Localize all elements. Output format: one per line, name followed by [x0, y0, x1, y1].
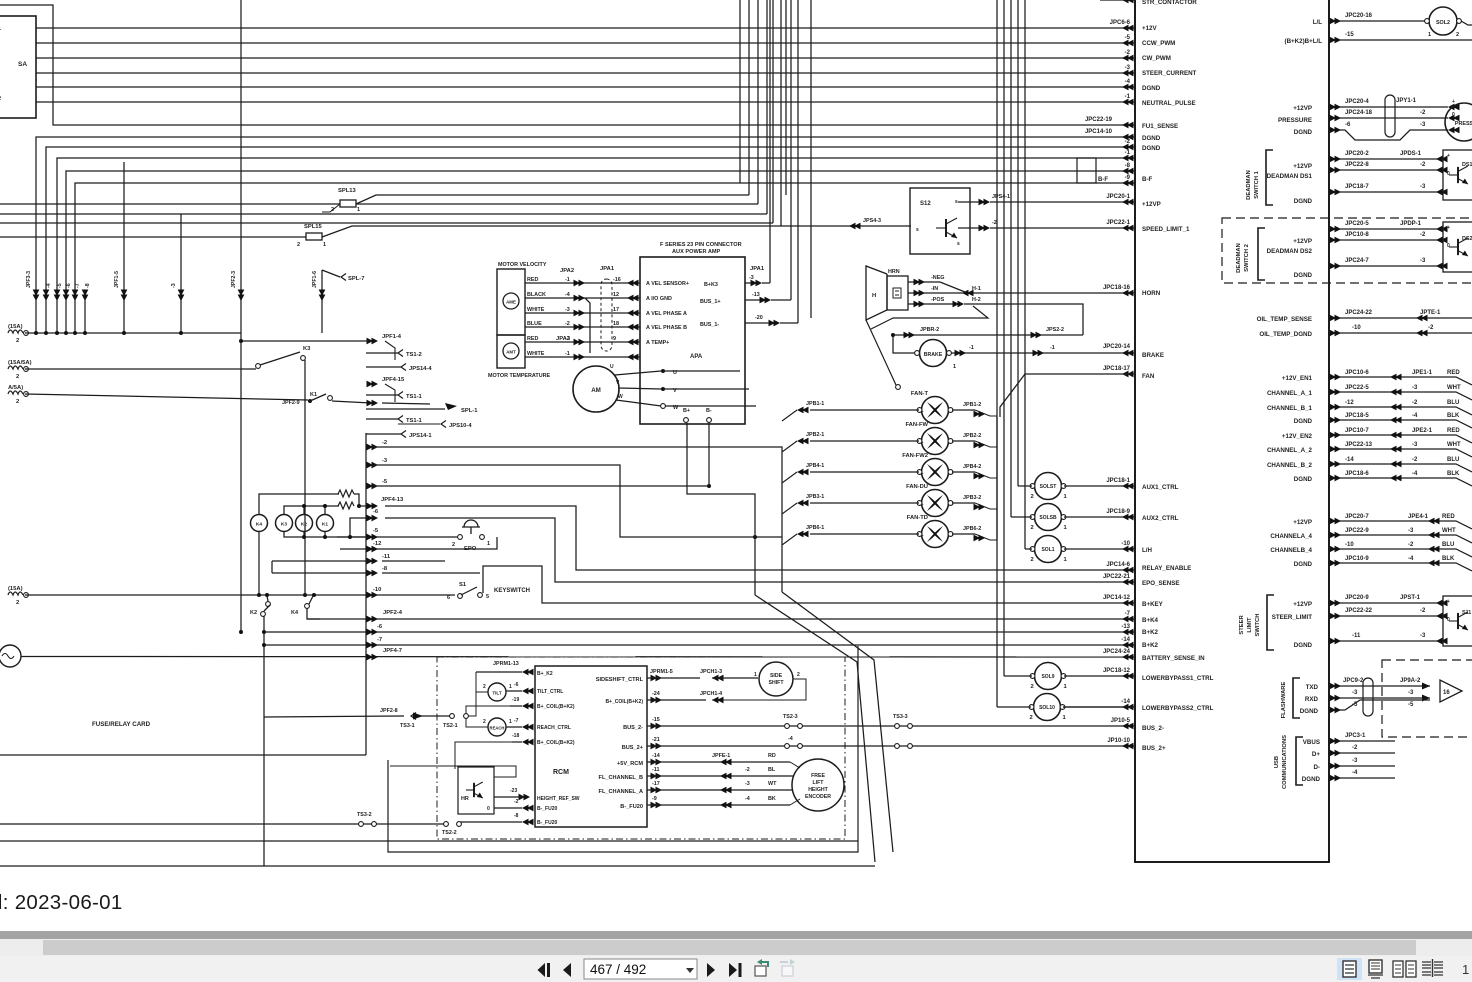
fan FAN-TD: [922, 521, 949, 548]
svg-text:-6: -6: [1345, 122, 1351, 128]
svg-text:MOTOR TEMPERATURE: MOTOR TEMPERATURE: [488, 373, 550, 379]
svg-text:-23: -23: [510, 788, 517, 794]
splice SPL15: [0, 236, 306, 238]
svg-text:JPC24-7: JPC24-7: [1345, 258, 1369, 264]
node TS2-1: [450, 714, 455, 719]
wire EPO_SENSE row: [385, 518, 1135, 582]
svg-text:SOLSB: SOLSB: [1039, 515, 1057, 521]
svg-text:-7: -7: [75, 283, 81, 288]
svg-text:-4: -4: [1412, 471, 1418, 477]
svg-text:B+K3: B+K3: [704, 282, 718, 288]
svg-text:RELAY_ENABLE: RELAY_ENABLE: [1142, 565, 1191, 572]
fan FAN-FW: [922, 428, 949, 455]
svg-text:DGND: DGND: [1294, 476, 1313, 483]
wire DS2 rows: [1329, 228, 1443, 230]
svg-text:-8: -8: [382, 566, 388, 572]
svg-text:16: 16: [1443, 690, 1450, 696]
wire B+K4 row: [307, 618, 1135, 620]
svg-text:SIDESHIFT_CTRL: SIDESHIFT_CTRL: [596, 677, 644, 683]
svg-text:1: 1: [754, 672, 757, 678]
wire bottom rail 2: [0, 865, 875, 867]
svg-text:JPB1-2: JPB1-2: [963, 402, 981, 408]
svg-text:+12VP: +12VP: [1293, 601, 1312, 608]
solenoid SOLST: [1035, 473, 1062, 500]
svg-text:6: 6: [447, 595, 450, 601]
svg-text:-2: -2: [745, 767, 750, 773]
svg-text:FUSE/RELAY CARD: FUSE/RELAY CARD: [92, 721, 151, 728]
svg-text:JPA1: JPA1: [600, 266, 615, 272]
svg-text:BLK: BLK: [1447, 413, 1460, 419]
wire bus row y214: [0, 213, 767, 215]
svg-text:JPS10-4: JPS10-4: [449, 423, 472, 429]
svg-text:B-_FU20: B-_FU20: [620, 804, 643, 810]
svg-text:CHANNELA_4: CHANNELA_4: [1270, 533, 1312, 540]
svg-text:SHIFT: SHIFT: [769, 680, 785, 686]
svg-text:SOLST: SOLST: [1040, 484, 1057, 490]
svg-text:-13: -13: [1121, 624, 1130, 630]
svg-text:APA: APA: [690, 354, 703, 360]
wire phase V: [618, 388, 661, 389]
svg-text:ENCODER: ENCODER: [805, 794, 831, 800]
svg-text:F SERIES 23 PIN CONNECTOR: F SERIES 23 PIN CONNECTOR: [660, 242, 742, 248]
wire BLACK jog vertical: [585, 298, 590, 353]
svg-text:-3: -3: [1352, 690, 1358, 696]
svg-text:TXD: TXD: [1306, 684, 1319, 691]
svg-text:-2: -2: [992, 220, 997, 226]
svg-text:(15A): (15A): [8, 324, 23, 330]
wire horn -POS: [908, 303, 957, 305]
svg-text:HEIGHT_REF_SW: HEIGHT_REF_SW: [537, 796, 580, 802]
svg-text:DGND: DGND: [1294, 129, 1313, 136]
toolbar next view button disabled: [780, 959, 795, 976]
svg-text:DEADMAN: DEADMAN: [1236, 243, 1242, 273]
svg-text:B-_FU20: B-_FU20: [537, 806, 558, 812]
svg-text:VBUS: VBUS: [1303, 739, 1320, 746]
svg-text:-3: -3: [745, 781, 750, 787]
svg-text:JPB4-1: JPB4-1: [806, 463, 824, 469]
svg-text:+: +: [921, 440, 924, 445]
scrollbar separator: [0, 931, 1472, 939]
svg-text:JPF4-13: JPF4-13: [381, 497, 404, 503]
svg-text:-2: -2: [1420, 110, 1426, 116]
svg-text:MOTOR VELOCITY: MOTOR VELOCITY: [498, 262, 547, 268]
switch K3: [256, 364, 261, 369]
svg-text:2: 2: [483, 719, 486, 725]
fan FAN-DU: [922, 490, 949, 517]
wire B+K2 row a: [264, 631, 1135, 633]
wire STEER_CURRENT bus row: [36, 65, 1135, 76]
twisted pair loop flashware: [1363, 678, 1373, 716]
svg-text:2: 2: [1030, 715, 1033, 721]
wire bus row y204 tail: [356, 203, 758, 205]
svg-text:BL: BL: [768, 767, 776, 773]
switch K1b horn end: [896, 385, 901, 390]
solenoid SOL10: [1034, 694, 1061, 721]
svg-text:JPA2: JPA2: [560, 268, 574, 274]
svg-text:JPC3-1: JPC3-1: [1345, 733, 1366, 739]
solenoid SOLSB: [1035, 504, 1062, 531]
view mode single page selected: [1337, 958, 1362, 980]
svg-text:JPB3-2: JPB3-2: [963, 495, 981, 501]
svg-text:CW_PWM: CW_PWM: [1142, 55, 1171, 62]
wire FUSE card right edge: [365, 433, 367, 755]
svg-text:-11: -11: [652, 767, 660, 773]
svg-text:TS2-1: TS2-1: [443, 723, 458, 729]
svg-text:1: 1: [1462, 962, 1469, 977]
sensor PRESS: [1445, 103, 1472, 141]
relay coil K2: [296, 515, 313, 532]
svg-text:FU1_SENSE: FU1_SENSE: [1142, 123, 1178, 130]
wire row -3 elbow: [371, 465, 782, 537]
svg-text:2: 2: [16, 600, 19, 606]
svg-text:+12VP: +12VP: [1293, 163, 1312, 170]
svg-text:SIDE: SIDE: [770, 673, 783, 679]
svg-text:-4: -4: [788, 736, 793, 742]
svg-text:HORN: HORN: [1142, 290, 1161, 297]
svg-text:JPF1-4: JPF1-4: [382, 334, 402, 340]
svg-text:-17: -17: [652, 781, 660, 787]
toolbar previous page button: [563, 963, 571, 977]
enclosure outer box: [388, 646, 858, 852]
svg-text:TS1-1: TS1-1: [406, 394, 423, 400]
wire bus elbow row -2: [46, 139, 1135, 296]
svg-text:TS2-3: TS2-3: [783, 714, 798, 720]
svg-text:(15A/5A): (15A/5A): [8, 360, 32, 366]
wire row -2 elbow: [371, 447, 782, 592]
svg-text:BK: BK: [768, 796, 776, 802]
svg-text:BATTERY_SENSE_IN: BATTERY_SENSE_IN: [1142, 655, 1205, 662]
svg-text:JPFE-1: JPFE-1: [712, 753, 730, 759]
wire CW_PWM bus row: [36, 50, 1135, 61]
svg-text:RED: RED: [1442, 514, 1455, 520]
view mode continuous: [1368, 960, 1383, 978]
svg-text:-21: -21: [652, 737, 660, 743]
svg-text:+: +: [1447, 599, 1450, 605]
svg-text:JPST-1: JPST-1: [1400, 595, 1421, 601]
svg-text:-2: -2: [565, 321, 570, 327]
svg-text:-8: -8: [514, 813, 519, 819]
wire bus row y223: [0, 222, 773, 224]
svg-text:S11: S11: [1462, 610, 1471, 616]
svg-text:-2: -2: [1420, 608, 1426, 614]
svg-text:JPC20-2: JPC20-2: [1345, 151, 1369, 157]
svg-text:-6: -6: [66, 283, 72, 288]
svg-text:JPF1-6: JPF1-6: [312, 271, 318, 288]
svg-text:-12: -12: [1345, 400, 1354, 406]
svg-text:TS3-2: TS3-2: [357, 812, 372, 818]
svg-text:-1: -1: [1050, 345, 1055, 351]
svg-text:B-_FU20: B-_FU20: [537, 820, 558, 826]
wire steer rows: [1329, 602, 1443, 604]
node TS1-2: [398, 350, 403, 357]
node JPS14-1: [401, 431, 406, 438]
wire vertical JPF2-3: [240, 0, 242, 632]
svg-text:-19: -19: [512, 697, 519, 703]
svg-text:A VEL PHASE B: A VEL PHASE B: [646, 325, 687, 331]
svg-text:+: +: [921, 409, 924, 414]
svg-text:DGND: DGND: [1294, 561, 1313, 568]
svg-text:+12VP: +12VP: [1142, 201, 1161, 208]
toolbar page number box: [584, 959, 697, 979]
svg-text:-5: -5: [373, 528, 379, 534]
svg-text:-NEG: -NEG: [931, 275, 944, 281]
connector shell dashed capsule JPA1: [601, 279, 612, 351]
svg-text:SWITCH 1: SWITCH 1: [1254, 170, 1260, 198]
relay coil K4: [251, 515, 268, 532]
svg-text:SPL-7: SPL-7: [348, 276, 364, 282]
wire S12 JPS4-3: [849, 223, 861, 230]
svg-text:B+_K2: B+_K2: [537, 671, 553, 677]
svg-text:S1: S1: [459, 582, 467, 588]
svg-text:BLACK: BLACK: [527, 292, 546, 298]
wire B+K2 row b: [264, 644, 1135, 646]
svg-text:AM: AM: [591, 387, 601, 394]
wire NEUTRAL_PULSE bus row: [36, 94, 1135, 105]
wire stub -3: [180, 214, 182, 333]
svg-text:-4: -4: [1408, 556, 1414, 562]
connector arrows JPF3-3..8: [33, 290, 40, 302]
svg-text:2: 2: [1031, 525, 1034, 531]
svg-text:-15: -15: [1345, 32, 1354, 38]
solenoid SOL1: [1035, 536, 1062, 563]
contactor box SA: [0, 16, 36, 118]
svg-text:JPC22-13: JPC22-13: [1345, 442, 1373, 448]
svg-text:JPC24-18: JPC24-18: [1345, 110, 1373, 116]
svg-text:LIMIT: LIMIT: [1247, 617, 1253, 633]
svg-text:-2: -2: [1408, 542, 1414, 548]
fuse FU2 (15A/5A): [8, 366, 23, 369]
svg-text:B+K2: B+K2: [1142, 629, 1159, 636]
svg-text:-10: -10: [1345, 542, 1354, 548]
svg-text:+12V_EN2: +12V_EN2: [1282, 433, 1313, 440]
svg-text:HR: HR: [461, 796, 469, 802]
svg-text:JPS14-1: JPS14-1: [409, 433, 432, 439]
svg-text:JPB6-2: JPB6-2: [963, 526, 981, 532]
wire S12 -2 SPEED: [958, 227, 983, 229]
svg-text:HRN: HRN: [888, 269, 900, 275]
svg-text:1: 1: [1063, 715, 1067, 721]
svg-text:TS3-1: TS3-1: [400, 723, 415, 729]
wire top L-route to FU1: [0, 5, 1135, 125]
svg-text:JPDS-1: JPDS-1: [1400, 151, 1422, 157]
switch K2: [265, 593, 269, 597]
wire JPBR-2 row: [893, 334, 1083, 336]
svg-text:+: +: [921, 533, 924, 538]
svg-text:SWITCH: SWITCH: [1255, 614, 1261, 637]
svg-text:SPEED_LIMIT_1: SPEED_LIMIT_1: [1142, 226, 1190, 233]
transistor HR box: [458, 767, 494, 814]
wire bottom rail 1: [0, 840, 858, 842]
svg-text:FAN-DU: FAN-DU: [906, 484, 928, 490]
svg-text:+12VP: +12VP: [1293, 105, 1312, 112]
svg-text:467 / 492: 467 / 492: [590, 962, 646, 977]
svg-text:-4: -4: [565, 292, 570, 298]
svg-text:-6: -6: [514, 682, 519, 688]
svg-text:CHANNEL_B_1: CHANNEL_B_1: [1267, 405, 1313, 412]
svg-text:JPF2-8: JPF2-8: [380, 708, 398, 714]
svg-text:1: 1: [1428, 32, 1431, 38]
svg-text:JPB3-1: JPB3-1: [806, 494, 824, 500]
svg-text:-3: -3: [565, 307, 570, 313]
svg-text:1: 1: [509, 719, 512, 725]
svg-text:JPC14-10: JPC14-10: [1085, 129, 1113, 135]
svg-text:TS1-1: TS1-1: [406, 418, 423, 424]
transistor S11 box: [1443, 596, 1472, 646]
svg-text:-10: -10: [1121, 541, 1130, 547]
svg-text:H-2: H-2: [972, 297, 981, 303]
switch EPO: [458, 535, 463, 540]
wire motor velocity RED: [525, 277, 640, 286]
svg-text:2: 2: [1456, 32, 1459, 38]
svg-text:+12VP: +12VP: [1293, 238, 1312, 245]
svg-text:-2: -2: [382, 440, 387, 446]
svg-text:A I/O GND: A I/O GND: [646, 296, 672, 302]
wire RELAY_ENABLE row: [385, 506, 1135, 570]
svg-text:JPRM1-5: JPRM1-5: [650, 669, 673, 675]
wire horn branch diagonal: [866, 320, 896, 385]
svg-text:JPDP-1: JPDP-1: [1400, 221, 1422, 227]
controller main box U1: [1135, 0, 1329, 862]
svg-text:CHANNEL_B_2: CHANNEL_B_2: [1267, 462, 1313, 469]
svg-text:JPC20-9: JPC20-9: [1345, 595, 1369, 601]
svg-text:JP10-10: JP10-10: [1107, 738, 1130, 744]
wire fan left chain: [996, 417, 998, 540]
wire phase U: [615, 371, 661, 375]
flashware dashed box: [1382, 660, 1472, 737]
svg-text:D-: D-: [1313, 764, 1320, 771]
svg-text:17: 17: [613, 307, 619, 313]
svg-text:1: 1: [509, 684, 512, 690]
vertical bus group B: [996, 0, 998, 707]
svg-text:1: 1: [1064, 557, 1068, 563]
svg-text:K2: K2: [250, 610, 257, 616]
wire keyswitch to B+KEY: [483, 566, 1135, 603]
svg-text:JPC18-17: JPC18-17: [1103, 366, 1131, 372]
wire +12V bus row: [36, 20, 1135, 31]
svg-text:JPF2-9: JPF2-9: [282, 400, 300, 406]
svg-text:B+KEY: B+KEY: [1142, 601, 1164, 608]
relay TILT: [488, 683, 506, 701]
scrollbar thumb: [43, 940, 1416, 955]
svg-text:JPTE-1: JPTE-1: [1420, 310, 1441, 316]
svg-text:BUS_1-: BUS_1-: [700, 322, 719, 328]
controller left pin labels: [1142, 0, 1214, 752]
toolbar background: [0, 956, 1472, 982]
transistor S12 box: [910, 188, 970, 254]
svg-text:SPL-1: SPL-1: [461, 408, 478, 414]
svg-text:STEER_CURRENT: STEER_CURRENT: [1142, 70, 1197, 77]
svg-text:K1: K1: [322, 522, 328, 528]
svg-text:K3: K3: [303, 346, 311, 352]
wire motor velocity BLUE: [525, 321, 640, 330]
transistor DS1 box: [1443, 150, 1472, 200]
svg-text:JPC20-4: JPC20-4: [1345, 99, 1369, 105]
svg-text:B-F: B-F: [1142, 176, 1153, 183]
svg-text:JPC20-7: JPC20-7: [1345, 514, 1369, 520]
resistor R2: [338, 502, 354, 509]
svg-text:+: +: [921, 502, 924, 507]
svg-text:SPL15: SPL15: [304, 224, 322, 230]
svg-text:JPC22-8: JPC22-8: [1345, 162, 1369, 168]
svg-text:JPCH1-4: JPCH1-4: [700, 691, 722, 697]
svg-text:JPY1-1: JPY1-1: [1396, 98, 1417, 104]
svg-text:2: 2: [16, 399, 19, 405]
svg-text:RED: RED: [1447, 428, 1460, 434]
svg-text:TS1-2: TS1-2: [406, 352, 422, 358]
svg-text:JPF1-5: JPF1-5: [114, 271, 120, 288]
svg-text:1: 1: [1064, 525, 1068, 531]
svg-text:-7: -7: [377, 637, 382, 643]
svg-text:-2: -2: [1352, 745, 1358, 751]
solenoid SOL2: [1429, 7, 1457, 35]
svg-text:FAN-FW: FAN-FW: [905, 422, 928, 428]
svg-text:BUS_2+: BUS_2+: [1142, 745, 1166, 752]
svg-text:BLK: BLK: [1447, 471, 1460, 477]
svg-text:TS3-3: TS3-3: [893, 714, 908, 720]
horn HN: [866, 266, 887, 320]
svg-text:+12VP: +12VP: [1293, 519, 1312, 526]
svg-text:B+_COIL(B+K2): B+_COIL(B+K2): [537, 704, 575, 710]
svg-text:(15A): (15A): [8, 586, 23, 592]
svg-text:-9: -9: [652, 796, 657, 802]
svg-text:-3: -3: [1408, 690, 1414, 696]
svg-text:DGND: DGND: [1142, 145, 1161, 152]
svg-text:STEER_LIMIT: STEER_LIMIT: [1272, 614, 1312, 621]
fuse FU3 (A/5A): [8, 391, 23, 394]
svg-text:-12: -12: [373, 541, 381, 547]
svg-text:1: 1: [1064, 494, 1068, 500]
svg-text:-2: -2: [1412, 457, 1418, 463]
svg-text:JPA1: JPA1: [750, 266, 765, 272]
motor SIDE SHIFT: [759, 662, 793, 696]
svg-text:-7: -7: [1125, 611, 1131, 617]
svg-text:DGND: DGND: [1142, 85, 1161, 92]
svg-text:-2: -2: [565, 336, 570, 342]
wire STR_CONTACTOR stub: [1100, 0, 1135, 1]
svg-text:-IN: -IN: [931, 286, 938, 292]
svg-text:+: +: [1452, 99, 1455, 105]
svg-text:BLU: BLU: [1447, 400, 1459, 406]
svg-text:JPC24-22: JPC24-22: [1345, 310, 1373, 316]
wire DS1 rows: [1329, 158, 1443, 160]
wire motor temp WHITE: [525, 351, 640, 360]
wire brake to controller: [951, 352, 1135, 354]
svg-text:2: 2: [0, 96, 1, 102]
svg-text:JPF4-7: JPF4-7: [383, 648, 402, 654]
svg-text:RXD: RXD: [1305, 696, 1319, 703]
svg-text:-13: -13: [752, 292, 760, 298]
svg-text:STEER: STEER: [1239, 615, 1245, 635]
svg-text:DGND: DGND: [1294, 418, 1313, 425]
switch K4: [312, 593, 316, 597]
toolbar first page button: [538, 963, 551, 977]
svg-text:SOL10: SOL10: [1039, 705, 1055, 711]
svg-text:-1: -1: [969, 345, 974, 351]
svg-text:-7: -7: [514, 718, 519, 724]
svg-text:JPE4-1: JPE4-1: [1408, 514, 1429, 520]
svg-text:DGND: DGND: [1300, 708, 1319, 715]
svg-text:BUS_1+: BUS_1+: [700, 299, 721, 305]
svg-text:B+: B+: [683, 408, 690, 414]
buffer symbol 16: [1440, 680, 1462, 702]
wire stub JPF1-5: [123, 162, 125, 333]
svg-text:-14: -14: [652, 753, 660, 759]
view mode continuous facing: [1422, 959, 1443, 977]
svg-text:-15: -15: [652, 717, 660, 723]
svg-text:B-F: B-F: [1098, 177, 1108, 183]
svg-text:JPCH1-3: JPCH1-3: [700, 669, 722, 675]
svg-text:-5: -5: [1408, 702, 1414, 708]
